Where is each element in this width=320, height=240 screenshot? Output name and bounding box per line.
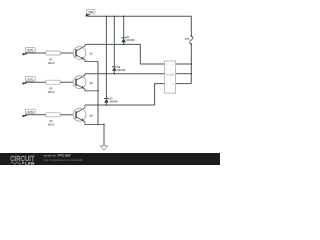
svg-text:http://circuitlab.com/c/d2bw49: http://circuitlab.com/c/d2bw49 <box>43 158 83 162</box>
svg-text:OUT3: OUT3 <box>27 112 34 114</box>
svg-text:1N4148: 1N4148 <box>117 69 126 72</box>
svg-text:10k Ω: 10k Ω <box>48 124 55 127</box>
svg-text:12: 12 <box>172 83 174 85</box>
svg-text:OUT1: OUT1 <box>27 50 34 52</box>
svg-text:1: 1 <box>166 64 167 66</box>
svg-text:3: 3 <box>166 83 167 85</box>
svg-text:PTC: PTC <box>185 39 190 41</box>
svg-text:VDD: VDD <box>88 12 93 14</box>
svg-text:10k Ω: 10k Ω <box>48 62 55 65</box>
svg-text:14: 14 <box>172 64 174 66</box>
svg-text:10k Ω: 10k Ω <box>48 91 55 94</box>
svg-text:1N4148: 1N4148 <box>126 39 135 42</box>
svg-text:OUT2: OUT2 <box>27 79 34 81</box>
svg-text:LAB: LAB <box>25 161 35 165</box>
svg-text:PIC16F8: PIC16F8 <box>166 75 173 77</box>
svg-text:1N4148: 1N4148 <box>110 100 119 103</box>
